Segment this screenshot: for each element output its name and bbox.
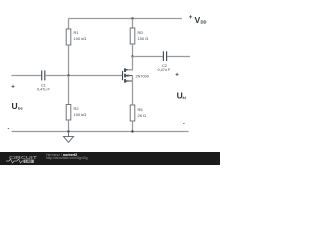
wire: drain jog down to transistor: [126, 57, 133, 70]
wire: RD bottom stub to drain node: [132, 44, 134, 57]
resistor R1: [66, 29, 71, 45]
junction: R5 / bottom rail node: [131, 130, 133, 132]
capacitor C1: [42, 70, 45, 80]
wire: bottom rail: [12, 131, 189, 133]
svg-text:R2: R2: [74, 106, 80, 111]
capacitor C2: [163, 51, 166, 61]
junction: gate / R1 / R2 node: [67, 74, 69, 76]
svg-text:26 Ω: 26 Ω: [138, 113, 147, 118]
logo waveform squiggle: [6, 159, 24, 163]
gate bar: [122, 71, 124, 80]
svg-text:100 Ω: 100 Ω: [138, 36, 149, 41]
resistor RD: [130, 28, 135, 44]
wire: VDD top rail: [69, 18, 183, 20]
drain connection dot: [126, 69, 128, 71]
svg-text:+: +: [189, 15, 193, 21]
svg-text:DD: DD: [201, 20, 207, 25]
svg-text:CIRCUIT: CIRCUIT: [9, 155, 37, 160]
ground symbol: [64, 132, 74, 143]
wire: R1 bottom stub to gate node: [68, 45, 70, 76]
wire: RD top stub: [132, 19, 134, 29]
channel segment middle: [124, 74, 126, 78]
body arrow (points left): [126, 74, 129, 77]
wire: R1 top stub: [68, 19, 70, 30]
svg-text:LAB: LAB: [25, 159, 32, 163]
label Uki (output voltage): [177, 91, 186, 101]
wire: C2 to output terminal: [167, 56, 190, 58]
svg-text:U: U: [12, 101, 18, 111]
svg-text:ki: ki: [183, 95, 186, 100]
junction: VDD / RD node: [131, 17, 133, 19]
wire: R2 bottom stub: [68, 120, 70, 132]
svg-text:100 kΩ: 100 kΩ: [74, 112, 87, 117]
junction: R2 / ground node: [67, 130, 69, 132]
power label +VDD: [189, 15, 207, 25]
watermark bar: [0, 152, 220, 165]
wire: drain node to C2: [133, 56, 164, 58]
channel segment bottom: [124, 79, 126, 83]
junction: drain / C2 node: [131, 55, 133, 57]
svg-text:http://circuitlab.com/6jp42g: http://circuitlab.com/6jp42g: [46, 156, 88, 160]
label Ube (input voltage): [12, 101, 24, 111]
svg-text:+: +: [11, 85, 15, 91]
resistor R2: [66, 105, 71, 121]
svg-text:+: +: [175, 73, 179, 79]
svg-text:R5: R5: [138, 107, 144, 112]
svg-text:2N7000: 2N7000: [136, 74, 149, 78]
middle connection wire: [129, 75, 133, 77]
source connection dot: [126, 80, 128, 82]
wire: R5 bottom stub: [132, 121, 134, 132]
transistor Q1 2N7000 (N-MOSFET): [123, 68, 133, 82]
channel segment top: [124, 68, 126, 72]
wire: C1 to gate: [45, 75, 122, 77]
resistor R5: [130, 105, 135, 121]
svg-text:100 kΩ: 100 kΩ: [74, 36, 87, 41]
svg-text:R1: R1: [74, 30, 80, 35]
wire: R2 top stub: [68, 76, 70, 105]
logo LAB box: [24, 160, 34, 163]
svg-text:be: be: [18, 106, 23, 111]
svg-text:0,47u F: 0,47u F: [37, 87, 51, 91]
bottom connection wire: [126, 80, 133, 82]
body connection dot: [126, 75, 128, 77]
svg-text:-: -: [183, 121, 185, 127]
svg-text:-: -: [8, 126, 10, 132]
svg-text:RD: RD: [138, 30, 144, 35]
wire: input terminal to C1: [12, 75, 42, 77]
svg-text:0,47u F: 0,47u F: [158, 68, 172, 72]
wire: source down to R5: [132, 76, 134, 105]
